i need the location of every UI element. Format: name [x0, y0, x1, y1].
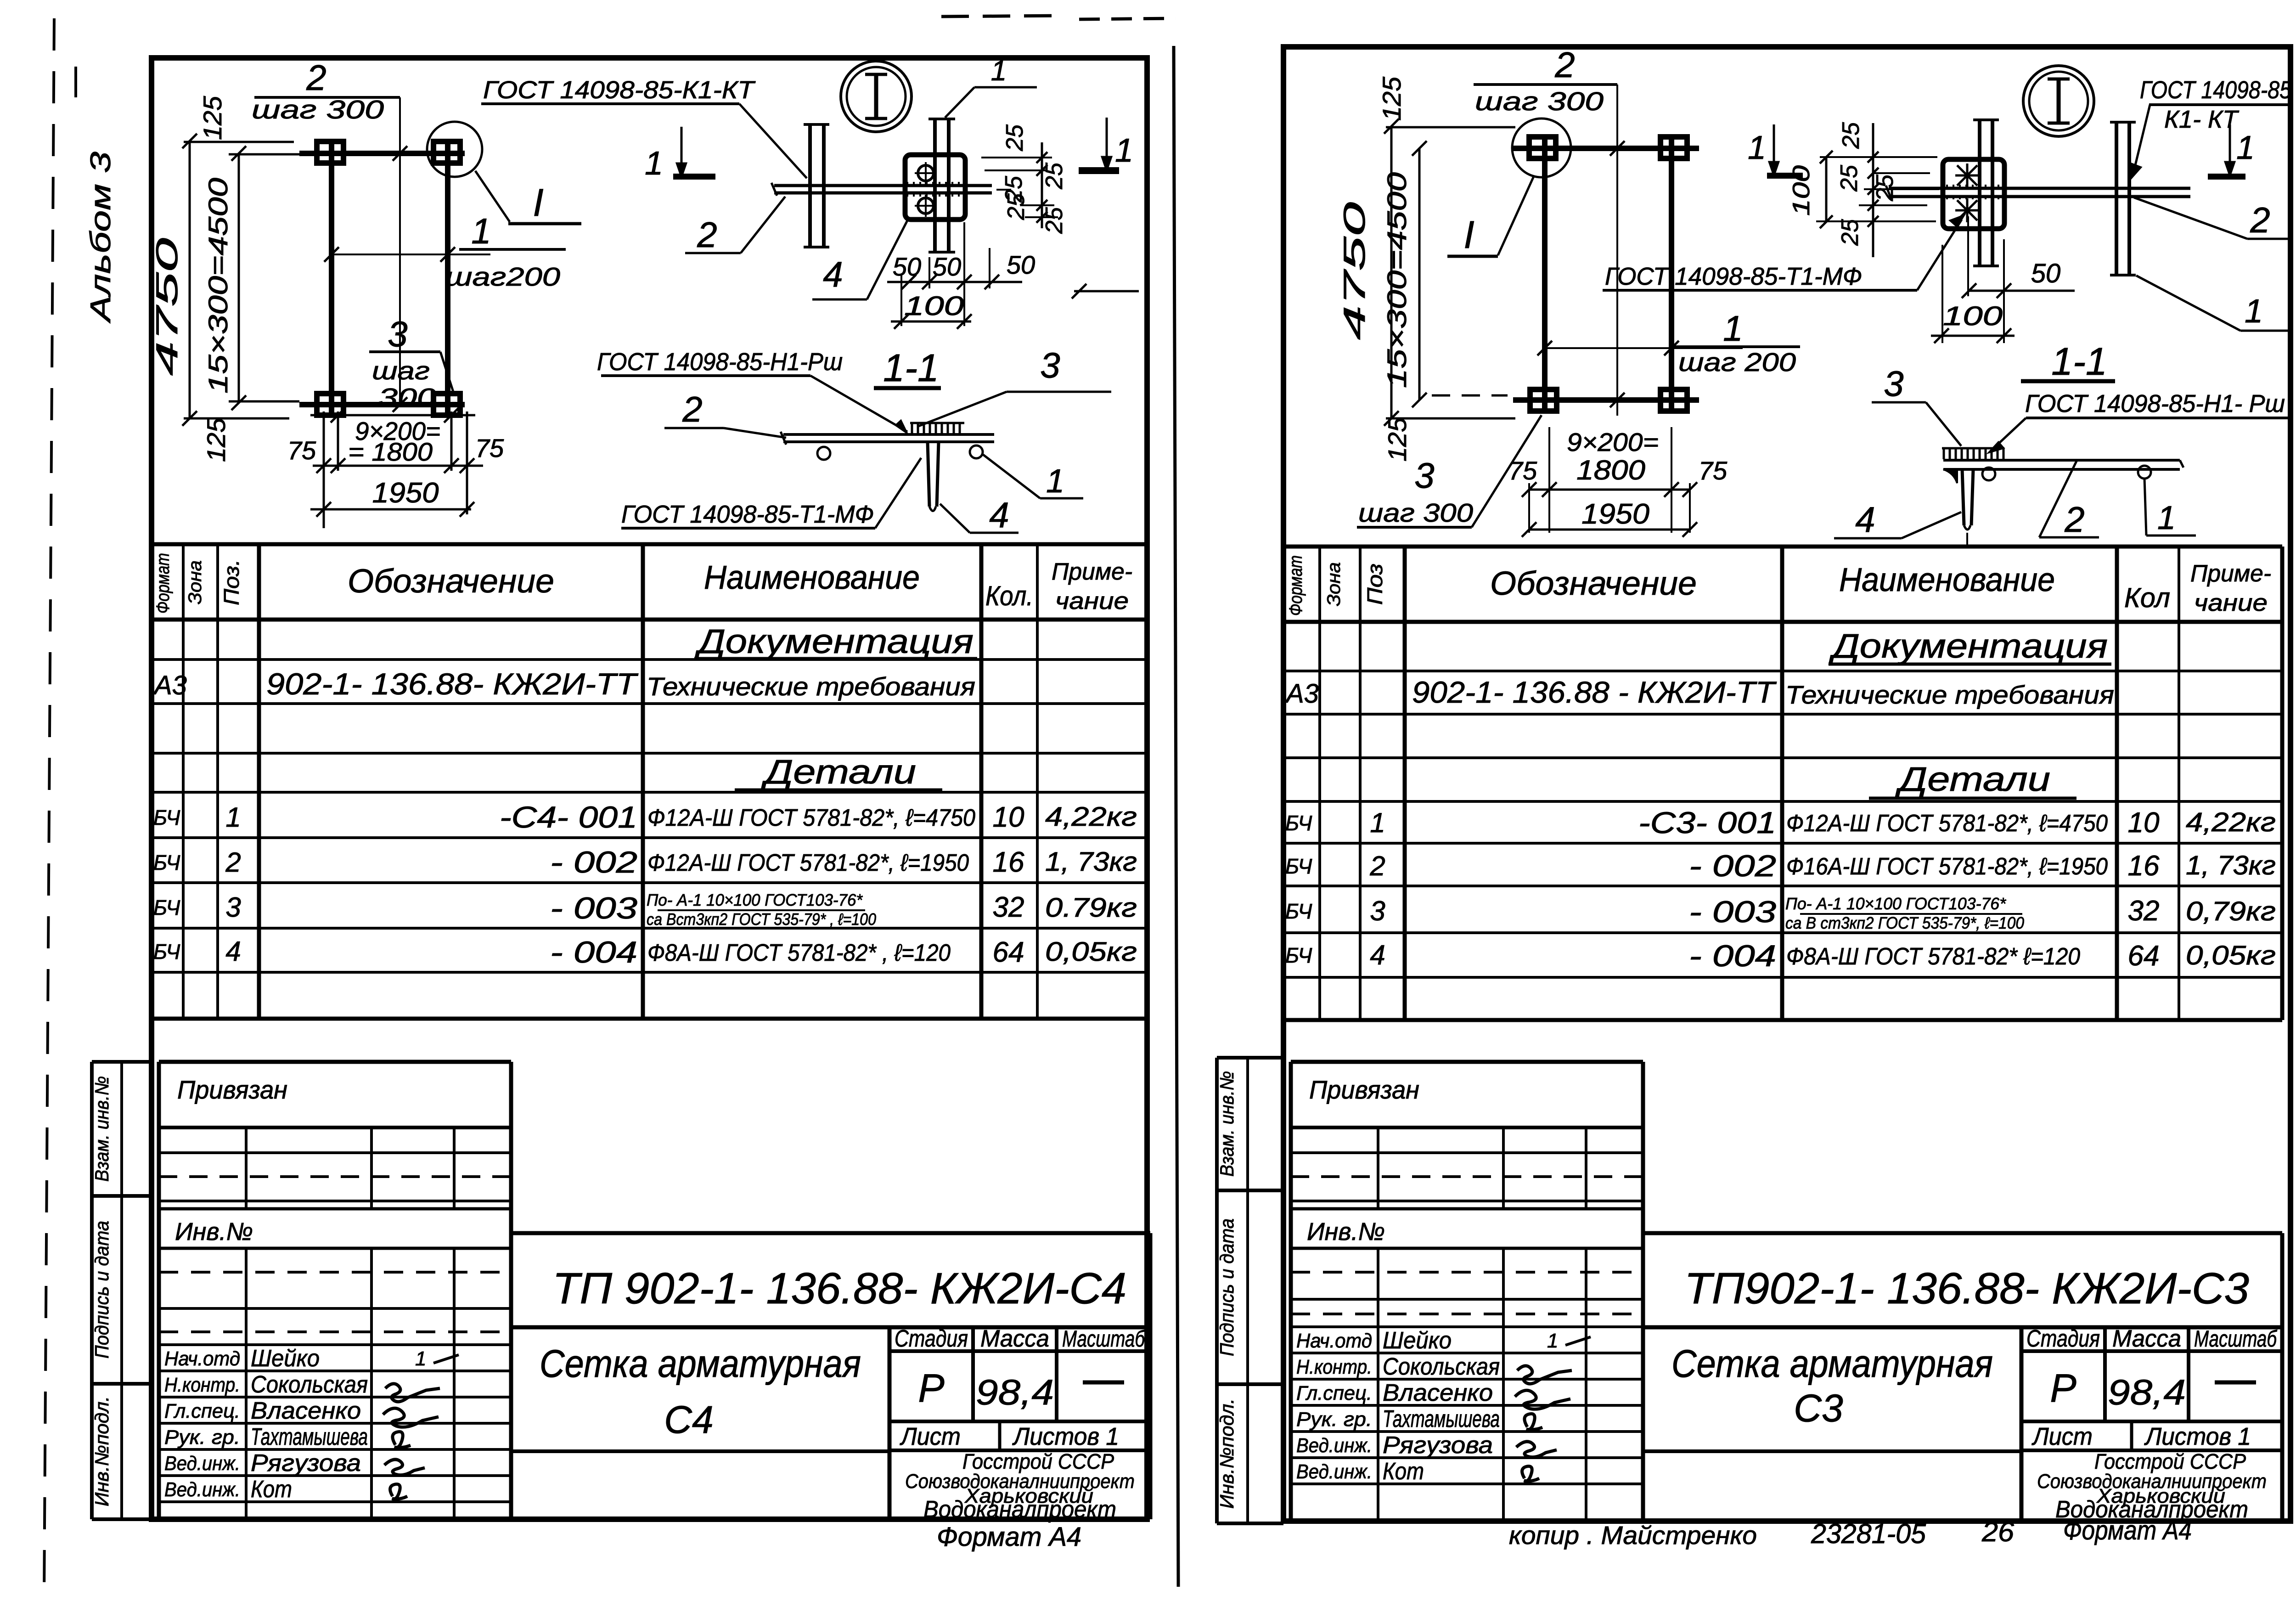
title block: signature grid [1291, 1126, 1643, 1129]
title block: handwritten signatures [1565, 1337, 1591, 1345]
detail I: connecting plate poz.3 [905, 155, 965, 220]
svg-text:26: 26 [1981, 1516, 2015, 1547]
svg-text:Сетка арматурная: Сетка арматурная [1671, 1342, 1993, 1385]
svg-text:1: 1 [1723, 308, 1743, 349]
svg-text:Альбом 3: Альбом 3 [85, 152, 117, 324]
svg-text:Тахтамышева: Тахтамышева [251, 1424, 368, 1450]
svg-text:ГОСТ 14098-85-Т1-МФ: ГОСТ 14098-85-Т1-МФ [1605, 263, 1862, 290]
svg-text:4,22кг: 4,22кг [2186, 807, 2276, 837]
title block: binder strip boxes [1217, 1056, 1283, 1060]
svg-text:3: 3 [388, 314, 407, 354]
svg-text:БЧ: БЧ [1285, 811, 1312, 835]
svg-text:9×200=: 9×200= [1567, 428, 1659, 457]
title block: stadia массa масштаб header [2103, 1327, 2107, 1421]
svg-text:Нач.отд: Нач.отд [164, 1347, 240, 1370]
svg-text:Ф8А-Ш ГОСТ 5781-82* , ℓ=120: Ф8А-Ш ГОСТ 5781-82* , ℓ=120 [647, 940, 951, 966]
svg-text:ГОСТ 14098-85-К1-КТ: ГОСТ 14098-85-К1-КТ [483, 76, 756, 104]
title block: stadia массa масштаб header [971, 1327, 975, 1421]
svg-text:64: 64 [993, 936, 1024, 968]
svg-text:БЧ: БЧ [1285, 943, 1312, 967]
dimension 50 50 50 (detail I) [887, 281, 1022, 283]
svg-text:4: 4 [823, 254, 843, 294]
svg-text:1, 73кг: 1, 73кг [2186, 851, 2276, 880]
svg-text:Кот: Кот [1383, 1458, 1424, 1485]
dimension 15x300=4500 [238, 153, 240, 403]
svg-text:4: 4 [989, 495, 1009, 535]
svg-text:2: 2 [1554, 45, 1575, 85]
svg-text:100: 100 [1943, 301, 2003, 331]
svg-text:4750: 4750 [1337, 202, 1371, 340]
svg-text:16: 16 [2128, 850, 2160, 882]
svg-text:32: 32 [993, 891, 1024, 923]
svg-text:шаг 300: шаг 300 [1358, 498, 1473, 528]
svg-text:С4: С4 [664, 1398, 713, 1441]
svg-text:Р: Р [2050, 1366, 2076, 1410]
svg-text:Рягузова: Рягузова [251, 1450, 361, 1477]
svg-text:Шейко: Шейко [1383, 1327, 1452, 1354]
title block: stadia values [2021, 1420, 2282, 1423]
mesh C4 plan: right vertical bar poz.1 [445, 143, 450, 412]
svg-text:Инв.№подл.: Инв.№подл. [1216, 1398, 1238, 1509]
svg-text:БЧ: БЧ [153, 940, 180, 964]
svg-text:1: 1 [415, 1347, 426, 1370]
svg-text:Н.контр.: Н.контр. [1296, 1356, 1372, 1378]
svg-text:2: 2 [1369, 851, 1385, 881]
svg-text:Кол.: Кол. [985, 581, 1033, 611]
svg-text:Масса: Масса [980, 1325, 1049, 1352]
svg-text:шаг 300: шаг 300 [1475, 87, 1604, 116]
title block: designation box [511, 1231, 1150, 1235]
svg-text:1: 1 [2236, 130, 2255, 166]
svg-text:Формат А4: Формат А4 [937, 1522, 1081, 1552]
svg-text:3: 3 [1370, 896, 1385, 926]
detail I: vertical bar poz.1 left (C3) [1978, 120, 1981, 266]
svg-text:2: 2 [697, 214, 717, 255]
svg-text:15×300=4500: 15×300=4500 [203, 178, 233, 394]
svg-text:Водоканалпроект: Водоканалпроект [923, 1496, 1116, 1523]
svg-text:25: 25 [1041, 207, 1068, 234]
svg-text:75: 75 [1699, 456, 1728, 485]
svg-text:-С3- 001: -С3- 001 [1638, 806, 1776, 840]
svg-text:Стадия: Стадия [2026, 1325, 2100, 1352]
scan artifact: page separator line [1174, 46, 1178, 1587]
svg-text:шаг: шаг [372, 356, 430, 385]
svg-text:4,22кг: 4,22кг [1045, 802, 1137, 832]
svg-text:25: 25 [1003, 193, 1030, 220]
svg-text:10: 10 [993, 801, 1024, 833]
svg-text:Поз: Поз [1363, 564, 1387, 605]
detail I: horizontal bar poz.2 (C3) [1889, 187, 2190, 190]
detail I callout circle on mesh C4 [427, 122, 482, 177]
svg-text:1: 1 [645, 145, 663, 182]
svg-text:1: 1 [225, 802, 241, 833]
section 1-1: anchor bar poz.4 (C3) [1962, 469, 1964, 525]
svg-text:4: 4 [1370, 940, 1385, 970]
dimension 15x300=4500 (C3) [1418, 148, 1421, 400]
svg-text:К1- КТ: К1- КТ [2164, 106, 2240, 133]
svg-text:75: 75 [475, 434, 504, 462]
svg-text:копир . Майстренко: копир . Майстренко [1509, 1521, 1757, 1550]
svg-text:ГОСТ 14098-85-Т1-МФ: ГОСТ 14098-85-Т1-МФ [621, 501, 874, 528]
svg-text:Рук. гр.: Рук. гр. [1296, 1408, 1372, 1431]
svg-text:Нач.отд: Нач.отд [1296, 1330, 1372, 1352]
svg-text:25: 25 [1836, 164, 1863, 192]
svg-text:25: 25 [1041, 162, 1068, 190]
svg-text:1: 1 [2245, 293, 2263, 330]
svg-text:Взам. инв.№: Взам. инв.№ [91, 1076, 113, 1182]
svg-text:Стадия: Стадия [895, 1325, 968, 1352]
svg-text:25: 25 [1837, 219, 1863, 246]
dimension 4750 (C3) [1390, 126, 1393, 418]
mesh C3 plan: left vertical bar poz.1 [1542, 138, 1548, 409]
section 1-1: anchor bar poz.4 [928, 442, 929, 507]
svg-text:Документация: Документация [694, 622, 974, 660]
svg-text:100: 100 [904, 291, 964, 321]
svg-text:-С4- 001: -С4- 001 [500, 800, 637, 834]
svg-text:I: I [1463, 213, 1474, 256]
svg-text:25: 25 [1002, 124, 1028, 152]
svg-text:Технические требования: Технические требования [1785, 680, 2114, 709]
svg-text:БЧ: БЧ [1285, 854, 1312, 878]
mesh C3 plan: bar position ticks [1610, 141, 1625, 156]
svg-text:ГОСТ 14098-85: ГОСТ 14098-85 [2140, 76, 2292, 104]
svg-text:125: 125 [1377, 76, 1406, 121]
svg-text:ТП 902-1- 136.88- КЖ2И-С4: ТП 902-1- 136.88- КЖ2И-С4 [552, 1264, 1126, 1313]
svg-text:32: 32 [2128, 895, 2160, 927]
svg-text:98,4: 98,4 [976, 1372, 1054, 1412]
svg-text:чание: чание [1055, 588, 1129, 614]
title block: privyazan box [1291, 1060, 1643, 1064]
svg-text:Гл.спец.: Гл.спец. [1296, 1382, 1372, 1404]
svg-text:Сокольская: Сокольская [251, 1371, 368, 1398]
svg-text:Кот: Кот [251, 1476, 292, 1503]
svg-text:А3: А3 [153, 671, 187, 700]
svg-text:75: 75 [287, 436, 316, 465]
svg-text:1950: 1950 [1581, 498, 1649, 530]
svg-text:Вед.инж.: Вед.инж. [164, 1452, 240, 1475]
title block: binder strip boxes [92, 1060, 152, 1064]
detail I: plug welds [918, 165, 934, 181]
section 1-1: weld hatch poz.3 [910, 422, 964, 424]
svg-text:50: 50 [2031, 259, 2061, 288]
title block: signature rows [159, 1370, 511, 1372]
svg-text:98,4: 98,4 [2108, 1372, 2186, 1412]
svg-text:Ф12А-Ш ГОСТ 5781-82*, ℓ=4750: Ф12А-Ш ГОСТ 5781-82*, ℓ=4750 [647, 805, 975, 831]
svg-text:1: 1 [991, 55, 1007, 87]
svg-text:Вед.инж.: Вед.инж. [164, 1478, 240, 1501]
svg-text:= 1800: = 1800 [348, 437, 433, 466]
svg-text:А3: А3 [1285, 679, 1319, 709]
svg-text:0,05кг: 0,05кг [2186, 941, 2276, 970]
svg-text:1: 1 [2157, 500, 2176, 536]
svg-text:Масштаб: Масштаб [1062, 1326, 1145, 1352]
svg-text:16: 16 [993, 846, 1024, 878]
svg-text:2: 2 [225, 847, 241, 878]
svg-text:БЧ: БЧ [1285, 899, 1312, 923]
svg-text:Инв.№: Инв.№ [1307, 1218, 1385, 1246]
svg-text:Шейко: Шейко [251, 1345, 320, 1372]
svg-text:По- А-1 10×100 ГОСТ103-76*: По- А-1 10×100 ГОСТ103-76* [1785, 894, 2006, 913]
svg-text:125: 125 [198, 96, 227, 140]
svg-text:Подпись и дата: Подпись и дата [91, 1221, 113, 1359]
mesh C4 plan: middle bar break line vertical [399, 97, 401, 406]
svg-text:По- А-1 10×100 ГОСТ103-76*: По- А-1 10×100 ГОСТ103-76* [647, 891, 863, 909]
mesh C3 plan: middle bar break line vertical [1616, 85, 1618, 416]
svg-text:125: 125 [1383, 417, 1412, 462]
svg-text:Технические требования: Технические требования [647, 672, 975, 701]
mesh C4 plan: top horizontal bar poz.2 [299, 151, 465, 156]
svg-text:Приме-: Приме- [2190, 560, 2271, 587]
svg-text:25: 25 [1838, 122, 1864, 149]
svg-text:шаг 300: шаг 300 [252, 95, 384, 124]
svg-text:1800: 1800 [1576, 455, 1645, 485]
svg-text:Наименование: Наименование [704, 559, 920, 596]
section 1-1: cross bar circles (C3) [1982, 468, 1995, 480]
svg-text:са В ст3кп2 ГОСТ 535-79*, ℓ=1: са В ст3кп2 ГОСТ 535-79*, ℓ=100 [1785, 913, 2024, 932]
svg-text:902-1- 136.88- КЖ2И-ТТ: 902-1- 136.88- КЖ2И-ТТ [266, 667, 639, 701]
specification table C3 grid [1282, 547, 1286, 1020]
svg-text:1, 73кг: 1, 73кг [1045, 847, 1137, 877]
svg-text:4750: 4750 [150, 237, 184, 376]
mesh C4 plan: bar position ticks [393, 146, 407, 161]
svg-text:0.79кг: 0.79кг [1045, 893, 1137, 923]
mesh C4 plan: left vertical bar poz.1 [329, 143, 334, 412]
svg-text:4: 4 [1855, 499, 1875, 540]
svg-text:Сокольская: Сокольская [1383, 1353, 1500, 1380]
svg-text:БЧ: БЧ [153, 896, 180, 919]
svg-text:Зона: Зона [185, 560, 205, 604]
svg-text:2: 2 [306, 57, 326, 98]
svg-text:2: 2 [2250, 200, 2270, 240]
section 1-1: cross bar circles [817, 447, 830, 460]
dimension 1950 [310, 508, 471, 511]
svg-text:- 004: - 004 [550, 935, 637, 969]
svg-text:Формат А4: Формат А4 [2063, 1516, 2192, 1545]
detail I: weld hatching on bar (C3) [1946, 185, 1948, 188]
svg-text:С3: С3 [1794, 1387, 1843, 1430]
svg-text:10: 10 [2128, 807, 2160, 839]
title block: name box [2020, 1327, 2024, 1519]
svg-text:- 002: - 002 [550, 845, 637, 879]
svg-text:Вед.инж.: Вед.инж. [1296, 1434, 1372, 1457]
svg-text:ГОСТ 14098-85-Н1- Рш: ГОСТ 14098-85-Н1- Рш [2025, 390, 2285, 417]
svg-text:1: 1 [1115, 132, 1133, 169]
svg-text:125: 125 [202, 417, 231, 462]
svg-text:Тахтамышева: Тахтамышева [1383, 1406, 1500, 1432]
dimension 100 (detail I) [891, 321, 971, 323]
svg-text:Привязан: Привязан [177, 1075, 287, 1104]
svg-text:Ф16А-Ш ГОСТ 5781-82*, ℓ=1950: Ф16А-Ш ГОСТ 5781-82*, ℓ=1950 [1786, 853, 2108, 880]
svg-text:Н.контр.: Н.контр. [164, 1374, 240, 1396]
sheet C4 border [152, 58, 1147, 1519]
section 1-1: horizontal bar poz.2 [783, 433, 994, 436]
svg-text:Привязан: Привязан [1309, 1075, 1419, 1104]
svg-text:1: 1 [471, 211, 491, 251]
detail I: vertical bar poz.1 (right) [933, 119, 937, 252]
detail I: vertical bar poz.2 (left) [808, 124, 812, 247]
title block: list row [889, 1449, 1150, 1452]
detail I: vertical bar poz.1 right (C3) [2115, 122, 2118, 275]
svg-text:Детали: Детали [1895, 760, 2050, 798]
svg-text:Власенко: Власенко [251, 1398, 361, 1424]
svg-text:Документация: Документация [1829, 627, 2108, 665]
svg-text:Рук. гр.: Рук. гр. [164, 1426, 240, 1449]
mesh C3 plan: middle bar break line horizontal [1545, 347, 1743, 349]
svg-text:Масса: Масса [2112, 1325, 2181, 1352]
svg-text:1: 1 [1046, 463, 1064, 500]
svg-text:3: 3 [1884, 363, 1903, 404]
title block: signature grid [159, 1126, 511, 1129]
svg-text:50: 50 [933, 252, 961, 281]
specification table C4 grid [150, 544, 154, 1019]
mesh C3 plan: top horizontal bar poz.2 [1513, 146, 1699, 151]
svg-text:2: 2 [2064, 499, 2084, 540]
svg-text:50: 50 [1007, 250, 1035, 279]
title block: stadia values [889, 1420, 1150, 1423]
svg-text:шаг200: шаг200 [445, 262, 560, 292]
title block: list row [2021, 1449, 2282, 1452]
svg-text:ТП902-1- 136.88- КЖ2И-С3: ТП902-1- 136.88- КЖ2И-С3 [1684, 1264, 2249, 1313]
svg-text:Кол: Кол [2124, 582, 2170, 613]
section 1-1: weld hatch poz.3 (C3) [1942, 447, 2004, 450]
svg-text:БЧ: БЧ [153, 806, 180, 829]
svg-text:Гл.спец.: Гл.спец. [164, 1400, 240, 1422]
svg-text:64: 64 [2128, 940, 2160, 972]
detail I: connecting plate poz.3 (C3) [1943, 159, 2004, 229]
dimensions 25 and 100 (left of plate, C3) [1820, 156, 1937, 158]
svg-text:Ф12А-Ш ГОСТ 5781-82*, ℓ=4750: Ф12А-Ш ГОСТ 5781-82*, ℓ=4750 [1786, 810, 2108, 837]
svg-text:Взам. инв.№: Взам. инв.№ [1216, 1071, 1238, 1177]
svg-text:Листов 1: Листов 1 [2144, 1423, 2251, 1450]
svg-text:Зона: Зона [1324, 562, 1344, 606]
svg-text:Обозначение: Обозначение [1490, 565, 1697, 602]
svg-text:23281-05: 23281-05 [1811, 1518, 1926, 1549]
mesh C4 plan: corner weld plates poz.3 [317, 141, 343, 163]
svg-text:1: 1 [1748, 130, 1766, 166]
mesh C3 plan: right vertical bar poz.1 [1669, 138, 1674, 409]
svg-text:Инв.№: Инв.№ [175, 1218, 253, 1246]
svg-text:I: I [533, 181, 543, 224]
svg-text:0,79кг: 0,79кг [2186, 896, 2276, 926]
svg-text:Формат: Формат [153, 553, 173, 614]
svg-text:1: 1 [1547, 1330, 1558, 1352]
svg-text:Наименование: Наименование [1839, 562, 2055, 598]
svg-text:ГОСТ 14098-85-Н1-Рш: ГОСТ 14098-85-Н1-Рш [597, 348, 843, 376]
detail I callout circle on mesh C3 [1512, 118, 1571, 177]
svg-text:15×300=4500: 15×300=4500 [1382, 172, 1412, 388]
scan artifact: left dash-dot vertical line [44, 18, 54, 1598]
svg-text:Р: Р [918, 1366, 944, 1410]
svg-text:Приме-: Приме- [1052, 558, 1132, 585]
dimension 4750 (left) [189, 141, 191, 418]
svg-text:Детали: Детали [761, 753, 916, 791]
svg-text:3: 3 [225, 892, 241, 923]
mesh C4 plan: middle bar break line horizontal [332, 254, 490, 255]
sheet C3 border [1283, 47, 2290, 1521]
svg-text:Формат: Формат [1286, 555, 1306, 616]
svg-text:300: 300 [378, 383, 437, 412]
section 1-1: horizontal bar poz.2 (C3) [1943, 459, 2180, 462]
title block: signature rows [1291, 1352, 1643, 1354]
svg-text:4: 4 [225, 936, 241, 967]
svg-text:1: 1 [1370, 807, 1385, 838]
svg-text:100: 100 [1788, 165, 1815, 216]
svg-text:50: 50 [893, 252, 921, 281]
svg-text:Рягузова: Рягузова [1383, 1432, 1493, 1459]
svg-text:2: 2 [682, 389, 702, 429]
dimensions 25 (right of detail I) [981, 157, 1052, 158]
svg-text:Поз.: Поз. [219, 559, 243, 605]
svg-text:Власенко: Власенко [1383, 1380, 1493, 1406]
svg-text:БЧ: БЧ [153, 851, 180, 874]
title block: privyazan box [159, 1060, 511, 1064]
svg-text:Лист: Лист [900, 1423, 961, 1450]
detail I: weld hatching on bar [906, 182, 908, 186]
svg-text:Подпись и дата: Подпись и дата [1216, 1218, 1238, 1356]
svg-text:1-1: 1-1 [883, 346, 939, 389]
svg-text:- 003: - 003 [550, 891, 637, 925]
detail I: plug welds (C3, star type) [1957, 165, 1977, 186]
scan artifact: small tick top left [74, 67, 77, 97]
svg-text:- 003: - 003 [1689, 895, 1776, 929]
svg-text:Листов 1: Листов 1 [1012, 1423, 1119, 1450]
svg-text:Масштаб: Масштаб [2194, 1326, 2277, 1352]
svg-text:Вед.инж.: Вед.инж. [1296, 1460, 1372, 1483]
mesh C4 plan: bottom horizontal bar poz.2 [299, 402, 465, 407]
svg-text:0,05кг: 0,05кг [1045, 937, 1137, 967]
mesh C3 plan: corner weld plates poz.3 [1529, 137, 1556, 158]
svg-text:Инв.№подл.: Инв.№подл. [91, 1396, 113, 1506]
detail I circle mark [841, 61, 912, 132]
scan artifact: top torn-edge dashes [941, 16, 1065, 17]
title block: name box [888, 1327, 892, 1519]
svg-text:1-1: 1-1 [2051, 340, 2107, 383]
svg-text:902-1- 136.88 - КЖ2И-ТТ: 902-1- 136.88 - КЖ2И-ТТ [1412, 675, 1777, 709]
detail I: horizontal bar poz.1 [774, 184, 992, 187]
svg-text:1950: 1950 [372, 477, 439, 509]
svg-text:Ф8А-Ш ГОСТ 5781-82* ℓ=120: Ф8А-Ш ГОСТ 5781-82* ℓ=120 [1786, 943, 2080, 970]
svg-text:шаг 200: шаг 200 [1678, 348, 1796, 377]
mesh C3 plan: bottom horizontal bar poz.2 [1513, 397, 1699, 403]
svg-text:Ф12А-Ш ГОСТ 5781-82*, ℓ=1950: Ф12А-Ш ГОСТ 5781-82*, ℓ=1950 [647, 850, 969, 876]
svg-text:Лист: Лист [2032, 1423, 2093, 1450]
dimension 9x200=1800 with 75 margins [310, 414, 475, 417]
svg-text:- 002: - 002 [1689, 849, 1776, 883]
svg-text:чание: чание [2194, 590, 2268, 616]
svg-text:- 004: - 004 [1689, 939, 1776, 973]
svg-text:са Вст3кп2 ГОСТ 535-79* , ℓ=1: са Вст3кп2 ГОСТ 535-79* , ℓ=100 [647, 910, 876, 929]
svg-text:3: 3 [1414, 455, 1434, 496]
svg-text:75: 75 [1508, 456, 1537, 485]
svg-text:Обозначение: Обозначение [348, 563, 554, 600]
svg-text:Сетка арматурная: Сетка арматурная [540, 1342, 861, 1385]
svg-text:3: 3 [1040, 345, 1060, 385]
title block: handwritten signatures [433, 1355, 459, 1363]
title block: designation box [1643, 1231, 2282, 1235]
detail I circle mark (C3) [2023, 66, 2094, 136]
